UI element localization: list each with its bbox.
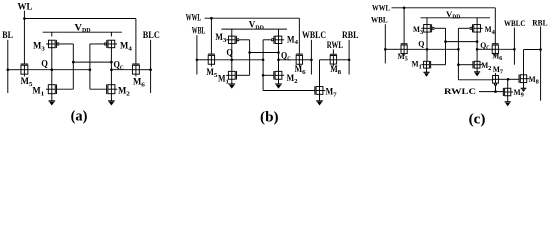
transistor M1 c xyxy=(421,61,430,68)
transistor M8 b xyxy=(330,54,337,66)
label M5 c xyxy=(398,51,408,63)
svg-text:5: 5 xyxy=(214,72,218,79)
svg-text:1: 1 xyxy=(419,64,422,70)
wire QC cross b xyxy=(250,52,279,54)
transistor M6 b xyxy=(296,54,303,66)
junction M2 gate b xyxy=(262,74,265,77)
svg-text:WL: WL xyxy=(18,1,33,11)
svg-text:5: 5 xyxy=(405,57,408,63)
label M4 c xyxy=(485,24,495,36)
ground M2 c xyxy=(474,68,480,76)
transistor M2 nmos xyxy=(107,84,118,94)
transistor M7 c xyxy=(493,73,499,85)
svg-text:4: 4 xyxy=(128,45,132,52)
label BL xyxy=(2,30,13,40)
junction QC cross right xyxy=(110,61,113,64)
wire M3 gate c xyxy=(435,27,446,29)
label M5 xyxy=(21,76,33,88)
label WBL xyxy=(192,25,206,35)
svg-text:WBL: WBL xyxy=(192,25,206,35)
svg-text:M: M xyxy=(413,24,420,34)
wire M8 drain to RBL c xyxy=(524,50,541,75)
caption (a) xyxy=(71,108,88,124)
svg-text:RWL: RWL xyxy=(327,40,343,50)
wire RWLC horizontal c xyxy=(479,91,503,93)
wire WL vertical left xyxy=(23,11,25,64)
wire M4-M2 gate vertical c xyxy=(458,28,492,80)
caption (b) xyxy=(260,108,279,125)
wire M6 to WBLC b xyxy=(303,59,312,61)
transistor M4 pmos c xyxy=(470,24,483,32)
svg-text:8: 8 xyxy=(536,80,539,86)
wire M4 gate b xyxy=(263,39,270,41)
label VDD b xyxy=(249,20,265,32)
svg-text:3: 3 xyxy=(223,37,227,44)
wire WBLC vertical c xyxy=(513,28,515,65)
svg-text:Q: Q xyxy=(418,38,424,48)
svg-text:M: M xyxy=(514,87,521,97)
ground M1 c xyxy=(423,68,429,77)
junction QC cross left c xyxy=(444,40,447,43)
junction node X c xyxy=(507,78,510,81)
svg-text:3: 3 xyxy=(420,30,423,36)
junction WBLC-M6 c xyxy=(513,48,516,51)
svg-text:(a): (a) xyxy=(71,108,88,124)
ground M1 b xyxy=(228,79,235,88)
wire WWL rail xyxy=(205,17,300,19)
svg-text:RBL: RBL xyxy=(342,30,359,40)
caption (c) xyxy=(469,110,486,127)
label WBLC c xyxy=(504,18,526,28)
wire WWL vertical left c xyxy=(403,8,405,44)
wire QC column b xyxy=(278,44,280,72)
node Q label c xyxy=(418,38,424,48)
node QC label xyxy=(114,60,125,72)
transistor M1 nmos xyxy=(46,84,57,94)
wire QC cross c xyxy=(446,41,478,43)
label M8 c xyxy=(529,74,539,86)
label RWL xyxy=(327,40,343,50)
label M5 b xyxy=(206,67,217,79)
node QC label c xyxy=(480,40,490,52)
junction WWL xyxy=(210,17,213,20)
svg-text:DD: DD xyxy=(255,24,264,31)
svg-text:4: 4 xyxy=(492,30,495,36)
wire M3 gate b xyxy=(240,39,250,41)
wire node X to M8 gate c xyxy=(508,78,519,80)
junction Q to M4 gate c xyxy=(457,48,460,51)
wire M1 gate c xyxy=(431,64,446,66)
wire Q column b xyxy=(231,44,233,72)
wire WBL vertical c xyxy=(384,24,386,63)
wire M3-M1 gate vertical b xyxy=(249,40,251,76)
wire node Q horizontal c xyxy=(407,48,458,50)
svg-text:RBL: RBL xyxy=(532,17,547,27)
ground M8 c xyxy=(521,83,527,92)
label M9 c xyxy=(514,87,524,99)
svg-text:7: 7 xyxy=(333,92,337,99)
wire BL to M5 xyxy=(8,69,21,71)
wire node Q horizontal xyxy=(28,69,90,71)
label M6 b xyxy=(295,64,306,76)
svg-text:(c): (c) xyxy=(469,110,486,127)
wire WBL vertical xyxy=(196,35,198,74)
svg-text:Q: Q xyxy=(41,58,48,68)
label M2 b xyxy=(287,73,298,85)
wire RBL vertical xyxy=(348,40,350,75)
svg-text:6: 6 xyxy=(499,56,502,62)
wire M4 gate xyxy=(90,43,104,45)
wire M4 source stub xyxy=(110,32,112,36)
wire QC column c xyxy=(476,32,478,61)
label M1 c xyxy=(412,59,422,71)
node Q label b xyxy=(226,48,233,58)
label BLC xyxy=(143,30,160,40)
svg-text:WWL: WWL xyxy=(372,3,390,13)
wire node QC horizontal b xyxy=(279,59,297,61)
transistor M8 c xyxy=(519,75,529,83)
label M1 xyxy=(32,86,44,98)
label WWL c xyxy=(372,3,390,13)
wire M2 gate c xyxy=(458,64,473,66)
junction QC cross right c xyxy=(476,40,479,43)
ground M9 c xyxy=(505,96,511,107)
svg-text:6: 6 xyxy=(141,81,145,88)
wire QC cross xyxy=(73,61,111,63)
svg-text:2: 2 xyxy=(126,90,130,97)
wire BLC vertical xyxy=(150,40,152,93)
svg-text:WWL: WWL xyxy=(186,13,202,23)
wire VDD rail c xyxy=(421,17,491,19)
junction RBL-M8 xyxy=(348,59,351,62)
junction WBL-M5 xyxy=(196,59,199,62)
junction WBL-M5 c xyxy=(384,48,387,51)
junction Q column b xyxy=(231,59,234,62)
wire WWL rail c xyxy=(392,7,496,9)
wire BL vertical xyxy=(7,40,9,93)
junction QC cross right b xyxy=(277,51,280,54)
label RWLC c xyxy=(444,87,476,96)
wire M3-M1 gate vertical c xyxy=(445,28,447,64)
label RBL xyxy=(342,30,359,40)
wire M7 gate b xyxy=(263,90,315,92)
ground M2 b xyxy=(275,79,282,88)
ground M7 b xyxy=(316,94,323,105)
label M6 c xyxy=(492,50,502,62)
wire M3 stub c xyxy=(426,18,428,25)
label M3 xyxy=(33,41,45,53)
label M4 b xyxy=(287,34,299,46)
svg-text:3: 3 xyxy=(41,45,45,52)
wire WBL to M5 b xyxy=(197,59,208,61)
svg-text:C: C xyxy=(287,55,291,62)
transistor M6 c xyxy=(492,44,499,56)
svg-text:M: M xyxy=(485,24,492,34)
junction Q to M4 gate xyxy=(89,68,92,71)
transistor M7 b xyxy=(315,86,325,94)
wire node QC horizontal c xyxy=(477,48,492,50)
junction Q column c xyxy=(426,48,429,51)
svg-text:M: M xyxy=(529,74,536,84)
wire M7 gate stem c xyxy=(495,84,497,91)
junction M2 gate c xyxy=(457,63,460,66)
svg-text:WBLC: WBLC xyxy=(504,18,526,28)
svg-text:WBLC: WBLC xyxy=(302,30,326,40)
wire M4-M2 gate vertical b xyxy=(262,40,264,91)
junction BL-M5 xyxy=(7,68,10,71)
svg-text:7: 7 xyxy=(500,70,503,76)
label M3 b xyxy=(215,32,226,44)
wire WWL vertical left xyxy=(210,18,212,54)
node Q label xyxy=(41,58,48,68)
transistor M2 c xyxy=(473,61,482,68)
label VDD c xyxy=(446,9,461,21)
svg-text:M: M xyxy=(493,64,500,74)
svg-text:1: 1 xyxy=(41,90,45,97)
svg-text:6: 6 xyxy=(302,69,306,76)
label M2 xyxy=(118,86,130,98)
junction Q column xyxy=(51,68,54,71)
wire node QC horizontal xyxy=(111,69,132,71)
wire WWL vertical right c xyxy=(494,8,496,44)
svg-text:4: 4 xyxy=(295,39,299,46)
wire WL rail xyxy=(24,18,135,20)
wire M3-M1 gate vertical xyxy=(72,44,74,89)
label M2 c xyxy=(481,60,491,72)
transistor M3 pmos c xyxy=(421,24,434,32)
label M8 b xyxy=(330,64,341,76)
label M1 b xyxy=(218,74,229,86)
wire M4-M2 gate vertical xyxy=(89,44,91,89)
label M7 c xyxy=(493,64,503,76)
wire M8 left to M7 drain xyxy=(320,60,331,87)
transistor M6 xyxy=(132,64,140,76)
transistor M4 pmos b xyxy=(271,36,284,44)
svg-text:2: 2 xyxy=(488,66,491,72)
label M3 c xyxy=(413,24,423,36)
wire WBL to M5 c xyxy=(385,48,401,50)
wire M7 to node X c xyxy=(498,78,508,80)
node QC label b xyxy=(281,51,291,63)
junction BLC-M6 xyxy=(149,68,152,71)
svg-text:DD: DD xyxy=(82,27,91,34)
junction RWLC-M7 c xyxy=(494,90,497,93)
wire M9 drain up c xyxy=(507,79,509,88)
label M4 xyxy=(120,41,133,53)
svg-text:M: M xyxy=(412,59,419,69)
junction QC cross left xyxy=(72,61,75,64)
wire M4 gate c xyxy=(458,27,469,29)
wire node QC column xyxy=(110,48,112,85)
svg-text:9: 9 xyxy=(521,93,524,99)
wire M4 stub c xyxy=(476,18,478,25)
label RBL c xyxy=(532,17,547,27)
label M7 b xyxy=(326,87,337,99)
junction QC column b xyxy=(277,59,280,62)
wire M4 stub b xyxy=(278,29,280,36)
junction Q to M4 gate b xyxy=(262,59,265,62)
transistor M1 b xyxy=(226,71,236,80)
transistor M5 xyxy=(21,64,29,76)
wire M2 gate xyxy=(90,88,107,90)
wire WWL vertical right xyxy=(298,18,300,54)
wire WL vertical right xyxy=(135,19,137,64)
ground M2 xyxy=(108,94,115,106)
svg-text:C: C xyxy=(120,64,124,71)
junction WWL c xyxy=(403,7,406,10)
svg-text:BL: BL xyxy=(2,30,13,40)
transistor M5 b xyxy=(208,54,215,66)
label WWL xyxy=(186,13,202,23)
junction WBLC-M6 xyxy=(310,59,313,62)
svg-text:C: C xyxy=(486,46,490,52)
wire WBLC vertical xyxy=(310,40,312,75)
junction WL xyxy=(23,17,26,20)
transistor M3 pmos b xyxy=(226,36,239,44)
svg-text:2: 2 xyxy=(294,78,298,85)
label VDD xyxy=(75,22,91,34)
transistor M9 c xyxy=(503,88,513,96)
svg-text:8: 8 xyxy=(338,69,342,76)
transistor M5 c xyxy=(401,44,408,56)
wire node Q column xyxy=(51,48,53,85)
wire M8 right to RBL xyxy=(337,59,350,61)
wire VDD rail xyxy=(43,31,122,33)
wire M2 gate b xyxy=(263,74,274,76)
junction QC cross left b xyxy=(248,51,251,54)
wire M6 to BLC xyxy=(139,69,150,71)
transistor M2 b xyxy=(274,71,284,80)
wire M3 gate xyxy=(60,43,74,45)
svg-text:RWLC: RWLC xyxy=(444,87,476,96)
label M6 xyxy=(133,77,146,89)
junction QC column xyxy=(110,68,113,71)
svg-text:BLC: BLC xyxy=(143,30,160,40)
wire node Q horizontal b xyxy=(215,59,264,61)
wire VDD rail b xyxy=(221,28,287,30)
label WBLC xyxy=(302,30,326,40)
junction RBL c xyxy=(539,48,542,51)
wire M3 stub b xyxy=(231,29,233,36)
label WBL c xyxy=(371,15,388,25)
wire M1 gate b xyxy=(236,74,249,76)
wire RWL vertical xyxy=(332,49,334,54)
wire M6 right to WBLC c xyxy=(498,48,514,50)
junction QC column c xyxy=(476,48,479,51)
label WL xyxy=(18,1,33,11)
wire M3 source stub xyxy=(51,32,53,36)
svg-text:(b): (b) xyxy=(260,108,279,125)
transistor M4 pmos xyxy=(104,40,117,48)
wire M1 gate xyxy=(57,88,74,90)
wire RBL vertical c xyxy=(540,27,542,101)
ground M1 xyxy=(48,94,55,106)
transistor M3 pmos xyxy=(46,40,59,48)
svg-text:WBL: WBL xyxy=(371,15,388,25)
wire Q column c xyxy=(426,32,428,61)
